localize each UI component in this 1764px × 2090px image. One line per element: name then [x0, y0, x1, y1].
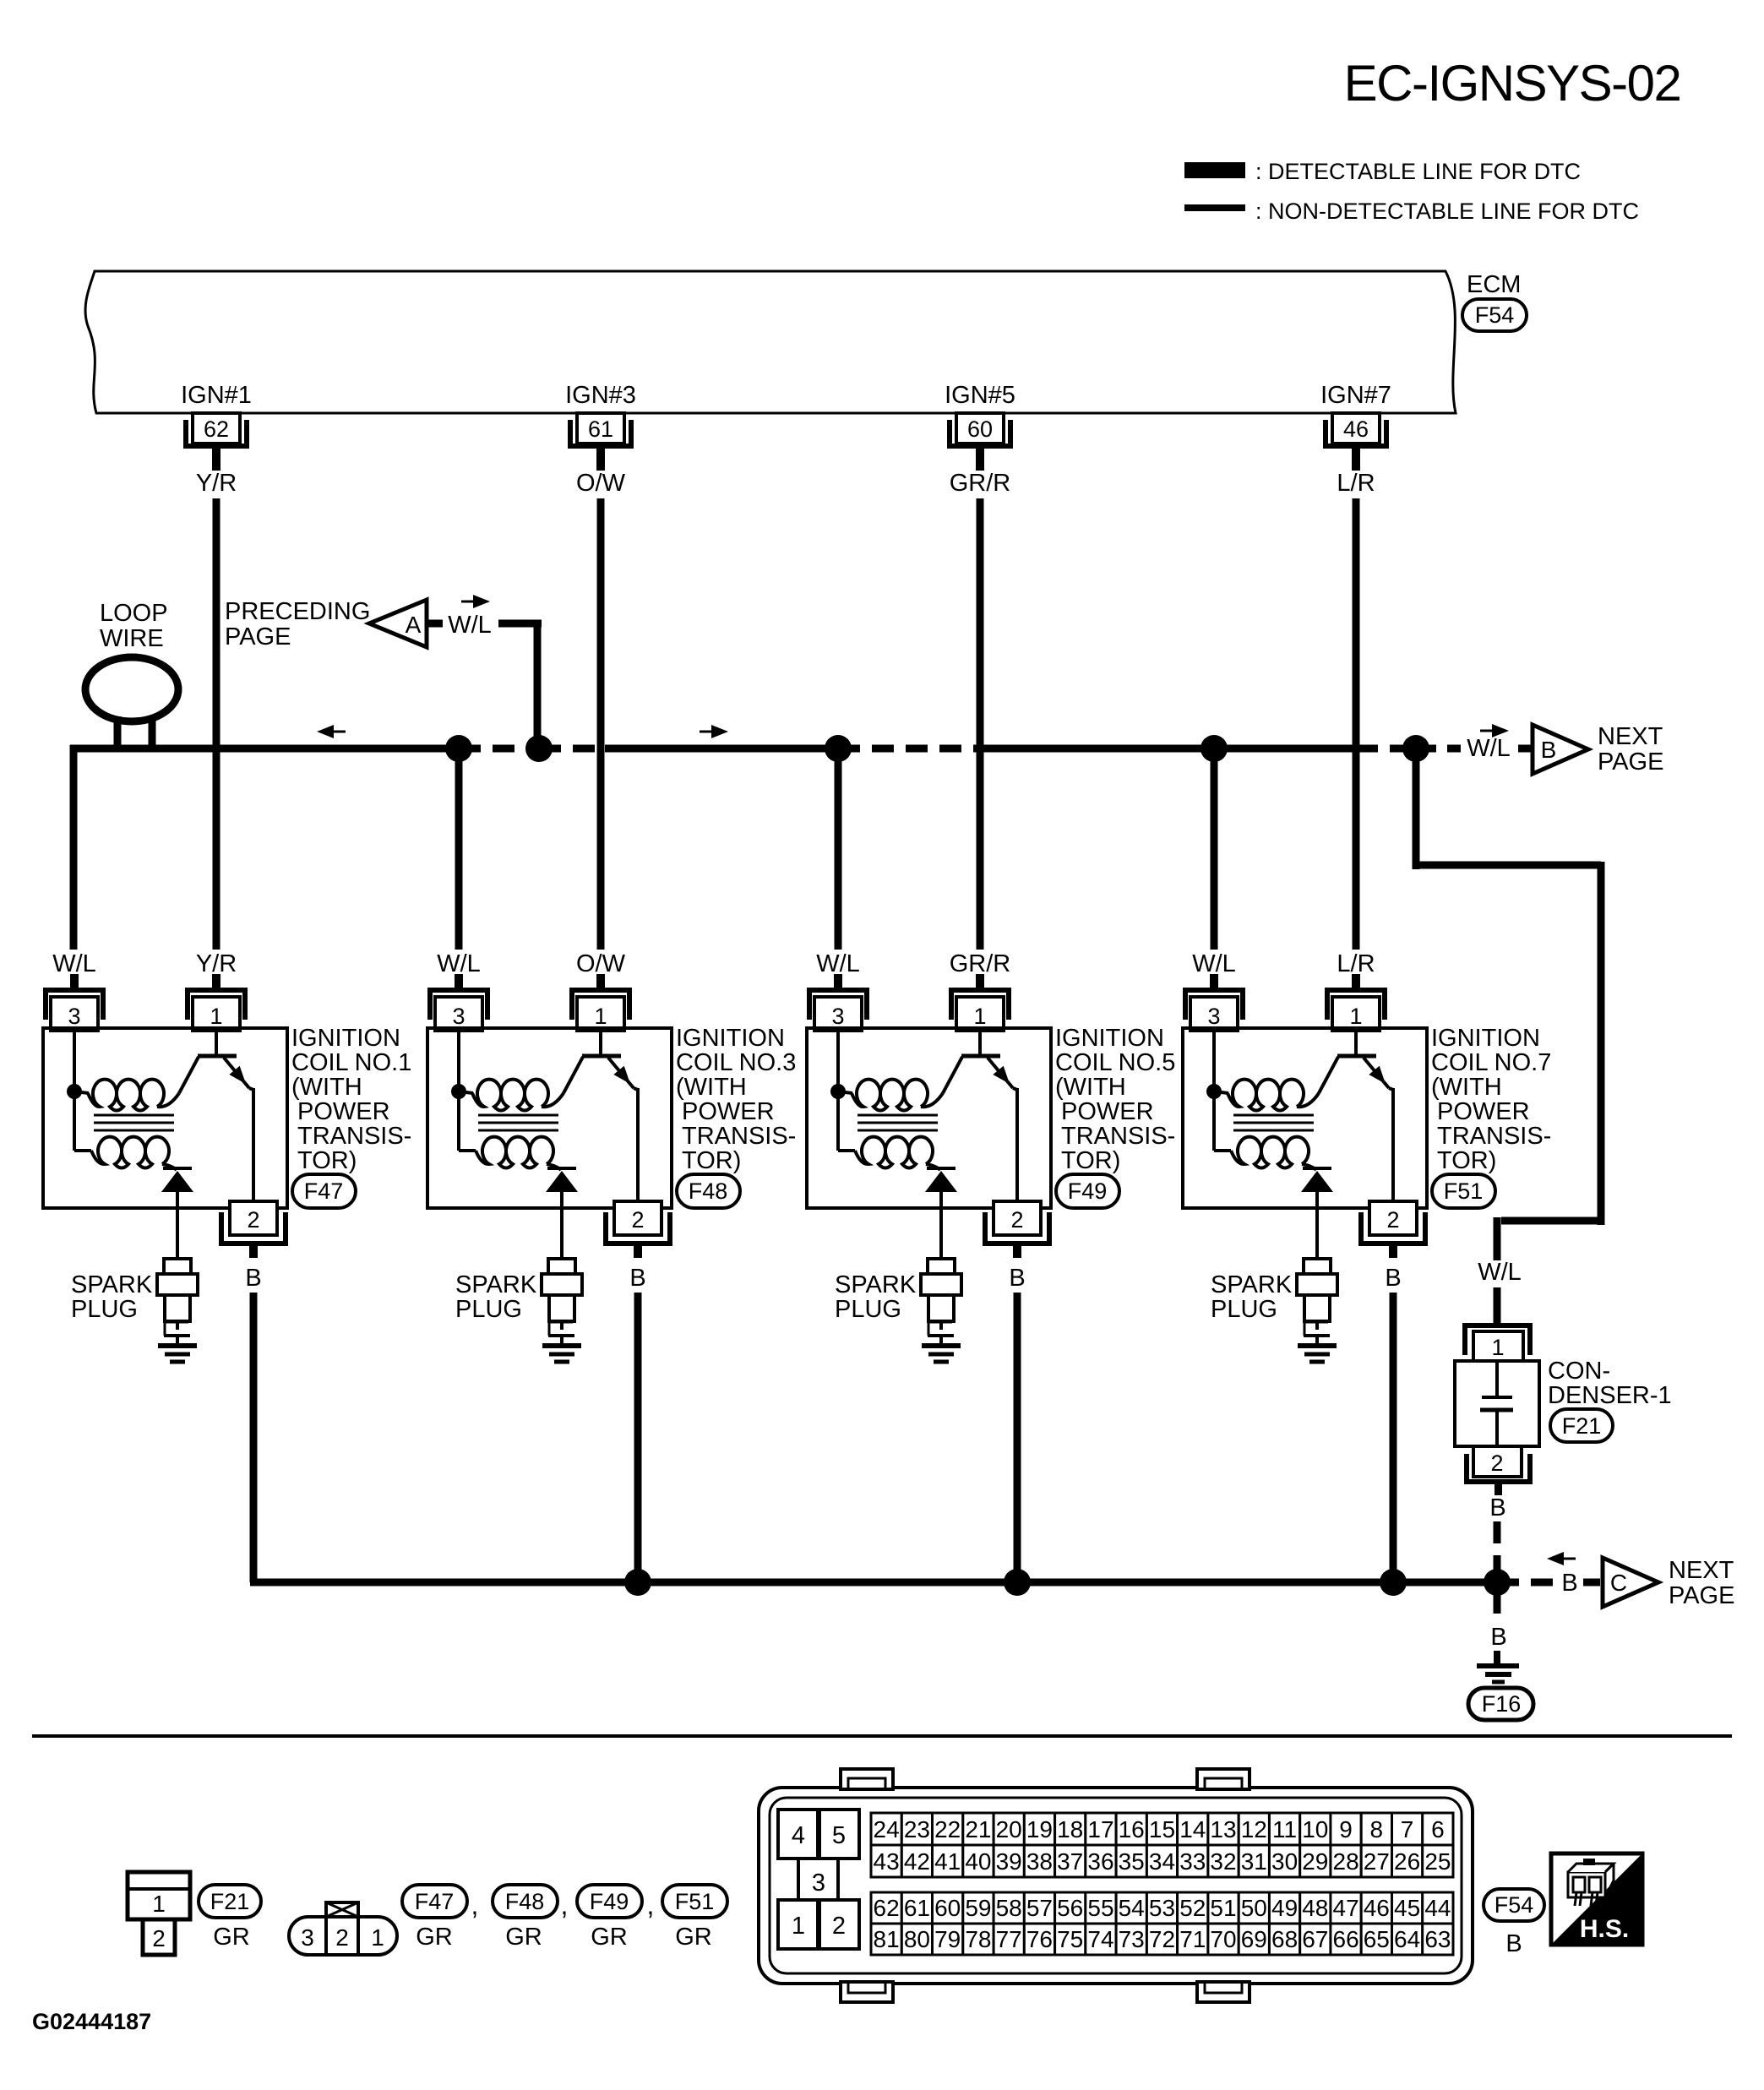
connector color GR (F49) — [591, 1924, 628, 1951]
svg-text:5: 5 — [832, 1822, 846, 1849]
svg-text:SPARK: SPARK — [455, 1271, 537, 1298]
ECM connector tab top — [1197, 1769, 1249, 1789]
ECM connector pin row 81-63 — [871, 1924, 1453, 1955]
svg-text:SPARK: SPARK — [71, 1271, 153, 1298]
condenser pin 1 — [1465, 1325, 1530, 1362]
top bus solid segment to coil4 dot — [980, 745, 1214, 753]
svg-text:78: 78 — [965, 1926, 991, 1952]
svg-text:(WITH: (WITH — [676, 1074, 747, 1101]
coil no.5 internal node — [830, 1028, 852, 1099]
bottom bus junction dot at condenser B — [1484, 1569, 1511, 1596]
ground connector oval F16 — [1468, 1688, 1533, 1720]
svg-text:1: 1 — [792, 1913, 805, 1940]
svg-text:H.S.: H.S. — [1580, 1915, 1629, 1943]
wire W/L from label to bus — [498, 623, 542, 748]
svg-text:24: 24 — [874, 1816, 900, 1842]
dashed link to triangle B — [1518, 745, 1534, 753]
svg-text:F48: F48 — [689, 1178, 728, 1204]
svg-text:F47: F47 — [415, 1889, 455, 1914]
transformer primary winding coil no.1 — [88, 1080, 179, 1111]
svg-text:F49: F49 — [590, 1889, 629, 1914]
svg-text:TOR): TOR) — [1437, 1147, 1496, 1174]
connector oval F51 bottom — [662, 1885, 727, 1918]
svg-text:NEXT: NEXT — [1669, 1557, 1734, 1584]
svg-text:SPARK: SPARK — [1211, 1271, 1293, 1298]
transformer core coil no.5 — [857, 1115, 938, 1130]
bottom bus junction dot at coil3 B — [624, 1569, 651, 1596]
svg-text:POWER: POWER — [682, 1098, 775, 1125]
ECM label — [1467, 271, 1521, 298]
svg-text:W/L: W/L — [52, 950, 96, 977]
svg-text:53: 53 — [1149, 1895, 1175, 1921]
svg-text:GR/R: GR/R — [950, 950, 1011, 977]
top bus dashed segment to exit dot — [1356, 745, 1416, 753]
svg-text:TRANSIS-: TRANSIS- — [297, 1123, 411, 1150]
transformer secondary winding coil no.7 — [1214, 1091, 1316, 1170]
svg-text:65: 65 — [1364, 1926, 1390, 1952]
loop wire — [85, 657, 178, 748]
transformer secondary winding coil no.3 — [459, 1091, 561, 1170]
svg-text:14: 14 — [1179, 1816, 1206, 1842]
svg-text:62: 62 — [204, 416, 229, 442]
ECM module band — [85, 271, 1456, 413]
svg-text:B: B — [1505, 1930, 1522, 1957]
spark plug no.7 label — [1211, 1271, 1293, 1323]
ignition coil no.1 pin 3 — [46, 974, 103, 1031]
svg-text:LOOP: LOOP — [100, 600, 168, 627]
svg-text:62: 62 — [874, 1895, 900, 1921]
legend non-detectable line sample — [1184, 204, 1245, 211]
svg-text:3: 3 — [68, 1004, 80, 1029]
ECM pin 62 — [186, 413, 247, 471]
svg-text:COIL NO.7: COIL NO.7 — [1431, 1049, 1551, 1076]
svg-text:3: 3 — [1207, 1004, 1220, 1029]
svg-text:W/L: W/L — [1467, 735, 1511, 762]
spark plug no.3 — [542, 1259, 582, 1346]
connector oval F49 bottom — [577, 1885, 642, 1918]
wire W/L drop to ignition coil no.5 — [835, 748, 842, 950]
ECM connector tab bottom — [1197, 1982, 1249, 2002]
svg-text:1: 1 — [973, 1004, 986, 1029]
wire color label GR/R — [950, 470, 1011, 497]
ignition coil no.1 label — [291, 1025, 411, 1174]
svg-text:64: 64 — [1394, 1926, 1420, 1952]
svg-text:47: 47 — [1333, 1895, 1359, 1921]
svg-text:IGNITION: IGNITION — [291, 1025, 400, 1052]
svg-text:2: 2 — [631, 1207, 644, 1233]
svg-text:60: 60 — [967, 416, 993, 442]
top bus junction dot at coil4 W/L — [1200, 735, 1228, 762]
ignition coil no.5 label — [1055, 1025, 1175, 1174]
svg-text:70: 70 — [1210, 1926, 1236, 1952]
svg-text:2: 2 — [335, 1924, 349, 1951]
svg-text:39: 39 — [996, 1848, 1022, 1875]
svg-text:O/W: O/W — [576, 950, 626, 977]
dashed wire B from condenser to bus — [1494, 1521, 1501, 1573]
svg-text:: NON-DETECTABLE LINE FOR DTC: : NON-DETECTABLE LINE FOR DTC — [1255, 199, 1639, 224]
svg-text:PLUG: PLUG — [835, 1296, 901, 1323]
svg-text:PLUG: PLUG — [71, 1296, 138, 1323]
svg-text:(WITH: (WITH — [291, 1074, 362, 1101]
wire W/L branch from bus to condenser — [1413, 748, 1604, 1260]
svg-text:63: 63 — [1424, 1926, 1451, 1952]
wire W/L into condenser — [1494, 1287, 1501, 1323]
svg-text:12: 12 — [1241, 1816, 1267, 1842]
svg-text:F21: F21 — [1562, 1413, 1602, 1439]
spark plug no.7 ground — [1298, 1346, 1337, 1362]
coil no.7 internal node — [1206, 1028, 1228, 1099]
svg-text:34: 34 — [1149, 1848, 1175, 1875]
svg-text:49: 49 — [1271, 1895, 1298, 1921]
spark plug no.5 ground — [922, 1346, 961, 1362]
diode coil no.1 — [161, 1168, 193, 1259]
arrow left before next page C — [1547, 1552, 1576, 1565]
svg-text:60: 60 — [934, 1895, 961, 1921]
dashed wire B from bus to ground — [1494, 1592, 1501, 1624]
svg-text:50: 50 — [1241, 1895, 1267, 1921]
condenser label — [1548, 1358, 1672, 1409]
svg-text:F21: F21 — [210, 1889, 250, 1914]
ECM connector oval F54 — [1462, 299, 1527, 331]
svg-text:PAGE: PAGE — [225, 623, 291, 650]
svg-text:1: 1 — [1491, 1335, 1504, 1360]
ECM terminal label IGN#1 — [181, 382, 252, 409]
svg-text:7: 7 — [1401, 1816, 1414, 1842]
wire color label O/W — [576, 470, 626, 497]
svg-text:W/L: W/L — [1192, 950, 1236, 977]
svg-text:42: 42 — [904, 1848, 930, 1875]
wire color label B above ground — [1490, 1624, 1506, 1651]
svg-text:COIL NO.1: COIL NO.1 — [291, 1049, 411, 1076]
svg-text:ECM: ECM — [1467, 271, 1521, 298]
transformer primary winding coil no.7 — [1228, 1080, 1319, 1111]
svg-text:18: 18 — [1057, 1816, 1083, 1842]
next page label bottom — [1669, 1557, 1734, 1609]
wire color label B at coil no.1 — [245, 1265, 261, 1292]
svg-text:TRANSIS-: TRANSIS- — [1437, 1123, 1551, 1150]
svg-text:1: 1 — [152, 1891, 166, 1917]
wire color label W/L at coil no.1 — [52, 950, 96, 977]
bottom bus dashed segment to B label — [1497, 1579, 1554, 1587]
svg-text:15: 15 — [1149, 1816, 1175, 1842]
svg-text:POWER: POWER — [1437, 1098, 1530, 1125]
svg-text:9: 9 — [1339, 1816, 1353, 1842]
svg-text:B: B — [1490, 1624, 1506, 1651]
svg-text:6: 6 — [1431, 1816, 1445, 1842]
svg-text:77: 77 — [996, 1926, 1022, 1952]
transformer core coil no.3 — [478, 1115, 558, 1130]
ignition coil no.1 pin 1 — [188, 974, 245, 1031]
svg-text:A: A — [406, 612, 422, 638]
spark plug no.3 label — [455, 1271, 537, 1323]
page connector triangle B — [1533, 725, 1588, 774]
condenser CONDENSER-1 box — [1455, 1361, 1539, 1446]
svg-text:46: 46 — [1364, 1895, 1390, 1921]
svg-text:73: 73 — [1119, 1926, 1145, 1952]
connector color GR (F51) — [675, 1924, 712, 1951]
power transistor coil no.5 — [943, 1028, 1017, 1208]
svg-text:W/L: W/L — [1478, 1259, 1522, 1286]
diagram title EC-IGNSYS-02 — [1344, 55, 1681, 112]
wire color label B below condenser — [1489, 1494, 1505, 1521]
svg-text:2: 2 — [832, 1913, 846, 1940]
svg-text:59: 59 — [965, 1895, 991, 1921]
svg-text:GR: GR — [505, 1924, 542, 1951]
svg-text:48: 48 — [1302, 1895, 1328, 1921]
svg-text:(WITH: (WITH — [1055, 1074, 1126, 1101]
svg-text:3: 3 — [812, 1870, 825, 1897]
svg-text:3: 3 — [452, 1004, 465, 1029]
svg-text:CON-: CON- — [1548, 1358, 1610, 1385]
svg-text:B: B — [1541, 737, 1557, 763]
svg-text:38: 38 — [1026, 1848, 1053, 1875]
wire color label Y/R at coil no.1 — [196, 950, 237, 977]
svg-text:76: 76 — [1026, 1926, 1053, 1952]
connector color GR (F48) — [505, 1924, 542, 1951]
svg-text:W/L: W/L — [448, 612, 492, 639]
top W/L bus wire solid left segment — [70, 745, 459, 753]
power transistor coil no.1 — [179, 1028, 253, 1208]
spark plug no.3 ground — [542, 1346, 581, 1362]
legend detectable line sample — [1184, 162, 1245, 178]
spark plug no.7 — [1297, 1259, 1337, 1346]
svg-text:23: 23 — [904, 1816, 930, 1842]
svg-text:20: 20 — [996, 1816, 1022, 1842]
svg-text:10: 10 — [1302, 1816, 1328, 1842]
svg-text:IGNITION: IGNITION — [676, 1025, 785, 1052]
svg-text:F49: F49 — [1068, 1178, 1108, 1204]
top bus junction dot at A-wire — [525, 735, 553, 762]
svg-text:F47: F47 — [304, 1178, 344, 1204]
svg-text:72: 72 — [1149, 1926, 1175, 1952]
top bus junction dot at next-page branch — [1402, 735, 1429, 762]
svg-text:29: 29 — [1302, 1848, 1328, 1875]
svg-text:NEXT: NEXT — [1598, 723, 1663, 750]
svg-text:TOR): TOR) — [1061, 1147, 1120, 1174]
ECM connector housing F54 — [759, 1788, 1473, 1984]
wire color label B at coil no.7 — [1385, 1265, 1401, 1292]
wire L/R from ECM pin 46 to ignition coil — [1353, 498, 1360, 950]
svg-text:35: 35 — [1119, 1848, 1145, 1875]
coil no.3 internal node — [451, 1028, 473, 1099]
connector oval F21 (condenser) — [1550, 1409, 1613, 1442]
spark plug no.1 — [157, 1259, 198, 1346]
svg-text:30: 30 — [1271, 1848, 1298, 1875]
H.S. harness symbol — [1551, 1853, 1642, 1945]
svg-text:55: 55 — [1087, 1895, 1113, 1921]
svg-text:TOR): TOR) — [297, 1147, 357, 1174]
ignition coil no.7 pin 3 — [1185, 974, 1243, 1031]
transformer primary winding coil no.3 — [472, 1080, 563, 1111]
wire color label L/R — [1337, 470, 1375, 497]
connector oval F49 — [1056, 1174, 1119, 1208]
svg-text:,: , — [471, 1890, 479, 1920]
ignition coil no.7 pin 2 — [1361, 1201, 1425, 1258]
transformer secondary winding coil no.5 — [838, 1091, 940, 1170]
svg-text:21: 21 — [965, 1816, 991, 1842]
comma separator — [471, 1890, 479, 1920]
svg-text:19: 19 — [1026, 1816, 1053, 1842]
diode coil no.5 — [925, 1168, 957, 1259]
bottom bus junction dot at coil5 B — [1004, 1569, 1031, 1596]
svg-text:17: 17 — [1087, 1816, 1113, 1842]
ECM terminal label IGN#3 — [565, 382, 636, 409]
svg-text:43: 43 — [874, 1848, 900, 1875]
arrow right before next page B — [1480, 724, 1509, 737]
svg-text:POWER: POWER — [1061, 1098, 1154, 1125]
power transistor coil no.3 — [563, 1028, 638, 1208]
svg-text:16: 16 — [1119, 1816, 1145, 1842]
svg-text:PLUG: PLUG — [1211, 1296, 1277, 1323]
svg-text:54: 54 — [1119, 1895, 1145, 1921]
wire color label O/W at coil no.3 — [576, 950, 626, 977]
wire color label B at coil no.3 — [629, 1265, 645, 1292]
svg-text:B: B — [1561, 1570, 1577, 1597]
wire color label B at next page C — [1561, 1570, 1577, 1597]
svg-text:67: 67 — [1302, 1926, 1328, 1952]
svg-text:52: 52 — [1179, 1895, 1206, 1921]
svg-text:,: , — [647, 1890, 655, 1920]
svg-text:POWER: POWER — [297, 1098, 390, 1125]
svg-text:32: 32 — [1210, 1848, 1236, 1875]
svg-text:B: B — [1489, 1494, 1505, 1521]
connector oval F47 bottom — [402, 1885, 467, 1918]
wire color label W/L at coil no.5 — [816, 950, 860, 977]
svg-text:74: 74 — [1087, 1926, 1113, 1952]
svg-text:IGNITION: IGNITION — [1431, 1025, 1540, 1052]
svg-text:Y/R: Y/R — [196, 470, 237, 497]
svg-text:O/W: O/W — [576, 470, 626, 497]
svg-text:81: 81 — [874, 1926, 900, 1952]
svg-text:27: 27 — [1364, 1848, 1390, 1875]
svg-text:,: , — [561, 1890, 569, 1920]
svg-text:2: 2 — [152, 1925, 166, 1951]
wire B from coil no.7 pin 2 to ground bus — [1390, 1293, 1397, 1582]
svg-text:3: 3 — [301, 1924, 314, 1951]
svg-text:37: 37 — [1057, 1848, 1083, 1875]
connector color GR (F47) — [416, 1924, 453, 1951]
svg-text:GR: GR — [675, 1924, 712, 1951]
svg-text:68: 68 — [1271, 1926, 1298, 1952]
svg-text:F48: F48 — [505, 1889, 545, 1914]
ignition coil no.3 pin 1 — [572, 974, 629, 1031]
svg-text:F54: F54 — [1475, 302, 1515, 328]
connector face 3-2-1 — [289, 1902, 397, 1955]
svg-text:EC-IGNSYS-02: EC-IGNSYS-02 — [1344, 55, 1681, 112]
svg-text:3: 3 — [831, 1004, 844, 1029]
wire color label B (F54) — [1505, 1930, 1522, 1957]
svg-text:IGNITION: IGNITION — [1055, 1025, 1164, 1052]
svg-text:IGN#3: IGN#3 — [565, 382, 636, 409]
connector color GR (F21) — [213, 1924, 250, 1951]
svg-text:71: 71 — [1179, 1926, 1206, 1952]
svg-text:1: 1 — [1349, 1004, 1362, 1029]
svg-text:TRANSIS-: TRANSIS- — [682, 1123, 796, 1150]
wire color label W/L at next page — [1467, 735, 1511, 762]
svg-text:11: 11 — [1272, 1816, 1297, 1842]
diode coil no.7 — [1301, 1168, 1333, 1259]
svg-text:41: 41 — [934, 1848, 961, 1875]
top bus dashed segment to W/L label — [1416, 745, 1461, 753]
svg-text:44: 44 — [1424, 1895, 1451, 1921]
top bus junction dot at coil3 W/L — [825, 735, 852, 762]
condenser pin 2 — [1467, 1446, 1530, 1495]
page connector triangle C — [1603, 1558, 1658, 1607]
top bus dashed segment to GR/R crossing — [838, 745, 980, 753]
ECM connector pin row 62-44 — [871, 1892, 1453, 1924]
svg-text:GR: GR — [213, 1924, 250, 1951]
svg-text:IGN#7: IGN#7 — [1320, 382, 1391, 409]
svg-text:66: 66 — [1333, 1926, 1359, 1952]
spark plug no.5 label — [835, 1271, 917, 1323]
spark plug no.1 ground — [158, 1346, 197, 1362]
wire color label W/L — [448, 612, 492, 639]
wire O/W from ECM pin 61 to ignition coil — [597, 498, 605, 950]
svg-text:1: 1 — [210, 1004, 222, 1029]
svg-text:58: 58 — [996, 1895, 1022, 1921]
top bus junction dot at coil2 W/L — [445, 735, 472, 762]
svg-text:COIL NO.3: COIL NO.3 — [676, 1049, 796, 1076]
spark plug no.5 — [921, 1259, 961, 1346]
svg-text:69: 69 — [1241, 1926, 1267, 1952]
ignition coil no.3 box — [427, 1028, 672, 1208]
separator line — [32, 1734, 1732, 1738]
svg-text:WIRE: WIRE — [100, 625, 164, 652]
svg-text:IGN#1: IGN#1 — [181, 382, 252, 409]
transformer primary winding coil no.5 — [852, 1080, 943, 1111]
ignition coil no.5 pin 2 — [985, 1201, 1049, 1258]
wire B from coil no.3 pin 2 to ground bus — [634, 1293, 642, 1582]
ignition coil no.5 pin 1 — [951, 974, 1009, 1031]
ECM terminal label IGN#7 — [1320, 382, 1391, 409]
svg-text:36: 36 — [1087, 1848, 1113, 1875]
svg-text:40: 40 — [965, 1848, 991, 1875]
svg-text:1: 1 — [371, 1924, 384, 1951]
wire GR/R from ECM pin 60 to ignition coil — [977, 498, 984, 950]
svg-text:2: 2 — [1386, 1207, 1399, 1233]
svg-text:L/R: L/R — [1337, 950, 1375, 977]
svg-text:W/L: W/L — [437, 950, 481, 977]
drawing number G02444187 — [32, 2009, 151, 2034]
ignition coil no.5 pin 3 — [809, 974, 867, 1031]
svg-text:PRECEDING: PRECEDING — [225, 598, 370, 625]
svg-text:G02444187: G02444187 — [32, 2009, 151, 2034]
svg-text:W/L: W/L — [816, 950, 860, 977]
transformer core coil no.7 — [1233, 1115, 1314, 1130]
svg-text:TOR): TOR) — [682, 1147, 741, 1174]
svg-text:B: B — [1385, 1265, 1401, 1292]
svg-text:F54: F54 — [1494, 1892, 1534, 1918]
svg-text:8: 8 — [1370, 1816, 1384, 1842]
svg-text:(WITH: (WITH — [1431, 1074, 1502, 1101]
legend non-detectable line text — [1255, 199, 1639, 224]
svg-text:GR: GR — [591, 1924, 628, 1951]
wire color label Y/R — [196, 470, 237, 497]
comma separator — [647, 1890, 655, 1920]
ECM terminal label IGN#5 — [945, 382, 1015, 409]
connector oval F51 — [1432, 1174, 1495, 1208]
top bus solid segment to coil3 dot — [605, 745, 838, 753]
bottom B ground bus — [250, 1578, 1497, 1582]
svg-text:1: 1 — [594, 1004, 607, 1029]
next page label top — [1598, 723, 1663, 776]
ignition coil no.3 label — [676, 1025, 796, 1174]
wire Y/R from ECM pin 62 to ignition coil — [213, 498, 220, 950]
wire color label W/L at coil no.3 — [437, 950, 481, 977]
svg-text:61: 61 — [904, 1895, 930, 1921]
svg-text:13: 13 — [1210, 1816, 1236, 1842]
svg-text:Y/R: Y/R — [196, 950, 237, 977]
